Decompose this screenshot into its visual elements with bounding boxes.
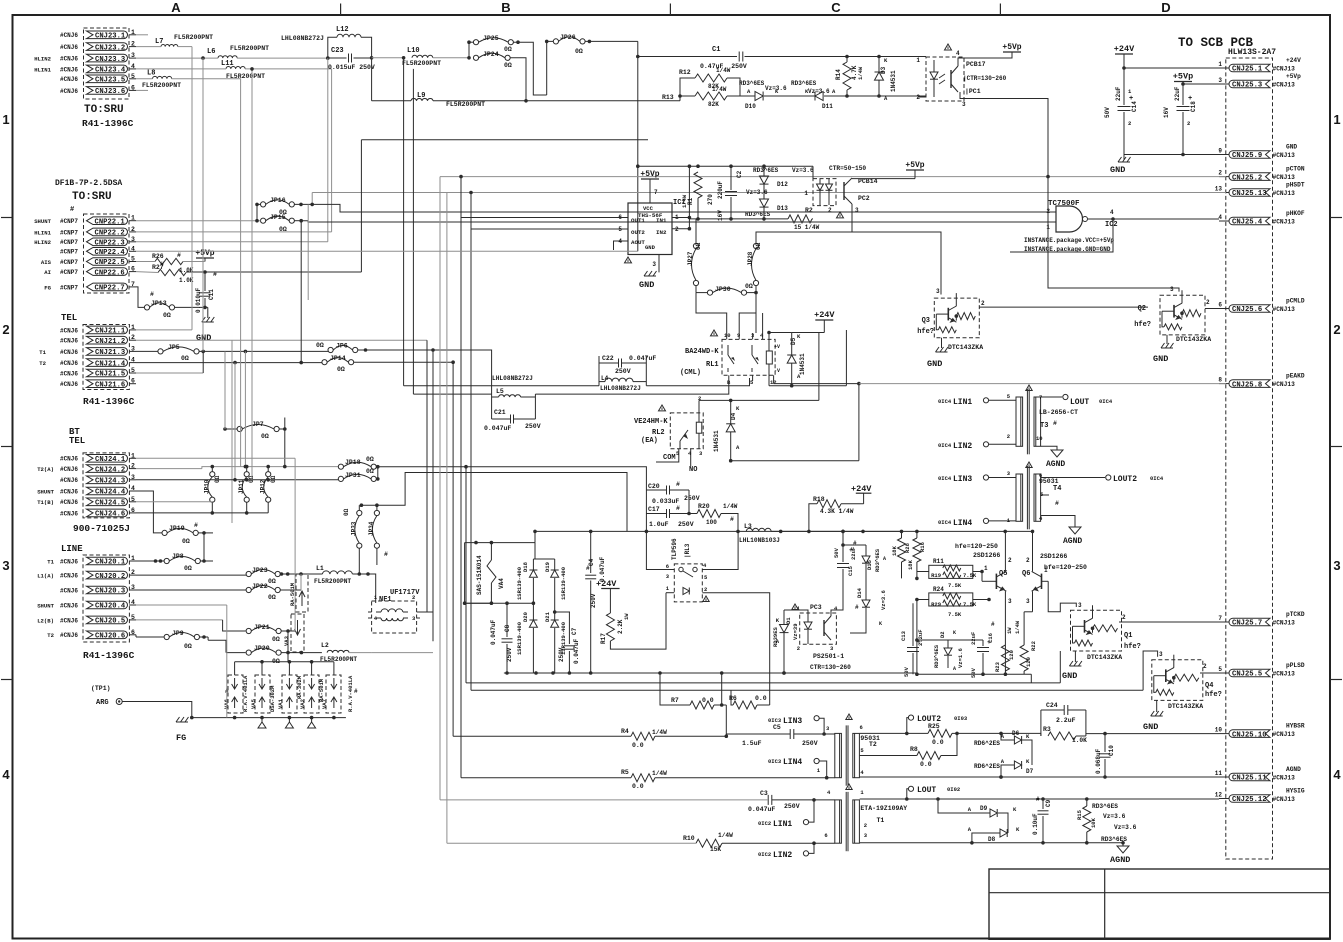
svg-text:3: 3 [962,101,966,108]
connector pin CNJ25.5 (pPLSD) [1229,669,1270,677]
PC1 arrows [939,74,945,78]
connector pin CNJ25.13 (pHSDT) [1229,189,1270,197]
svg-text:0Ω: 0Ω [268,594,276,601]
svg-text:L1: L1 [316,565,324,572]
jumper JP24 [473,55,478,60]
svg-text:CNJ20.5: CNJ20.5 [95,618,125,626]
svg-text:Vz=3.6: Vz=3.6 [808,88,830,95]
wire CNJ23.6 stub [136,89,148,91]
diode D21 1SR139-400 [551,620,559,627]
svg-text:#: # [384,551,388,558]
wire TLP pin4 [702,531,738,569]
wire JP13 right + gnd [175,306,208,308]
connector pin CNJ23.6 [87,87,128,95]
wire FG [192,717,226,719]
svg-text:+24V: +24V [1114,44,1135,54]
svg-text:#: # [991,621,995,628]
PC2 LEDs [817,184,824,190]
diode D7 RD6-2ES [1014,761,1021,769]
svg-text:LHL08NB272J: LHL08NB272J [600,385,641,392]
svg-text:D19: D19 [544,562,551,572]
svg-text:A: A [883,556,886,562]
wire VA4 bottom rail [465,602,534,604]
wire PC3 pin4 [831,570,843,616]
svg-text:SHUNT: SHUNT [34,218,51,225]
svg-text:6: 6 [860,724,863,731]
net stub JP21 wire [136,619,223,621]
svg-text:#: # [213,271,217,278]
wire JP19 right [198,532,213,534]
svg-text:0.0: 0.0 [632,783,644,790]
svg-text:50V: 50V [833,547,840,558]
wire bottom rail to R2 [689,218,788,220]
svg-text:JP21: JP21 [254,624,270,631]
wire L6 out to C23 block [237,57,328,59]
svg-text:RA-302M: RA-302M [296,675,303,699]
svg-text:2: 2 [1008,557,1012,564]
svg-text:95031: 95031 [860,735,880,742]
wire HLIN2 long CNP22.3 [136,241,328,243]
wire +24V to CNJ25.1 [1124,67,1219,69]
svg-text:250V: 250V [506,647,513,662]
svg-text:0.0: 0.0 [702,697,714,704]
wire x859 vertical [858,384,860,461]
diode D3 1N4531 [875,72,884,80]
svg-text:0.033uF: 0.033uF [652,498,679,505]
wire GND rail to CNJ25.9 [1124,154,1219,156]
svg-text:CNJ21.6: CNJ21.6 [95,381,125,389]
inductor L3 LHL10NB103J [746,528,771,531]
wire TLP pin6 [646,531,674,569]
svg-text:6: 6 [666,563,669,570]
svg-text:0Ω: 0Ω [316,342,324,349]
warning triangle IC1 [625,257,632,263]
wire IC2 out down [1010,219,1113,252]
wire PC2 emitter to Q3 [852,204,941,295]
wire C23 right down to L9 [371,58,373,101]
svg-text:#CNP7: #CNP7 [60,249,78,256]
svg-text:0Ω: 0Ω [181,355,189,362]
PC2 transistor [843,182,845,200]
svg-text:JP11: JP11 [238,479,245,494]
svg-text:CNJ24.6: CNJ24.6 [95,511,125,519]
resistor R19 7.5K [943,572,961,578]
svg-text:2.2K: 2.2K [617,619,624,634]
wire Q5 collector [1004,531,1006,571]
svg-text:CNJ23.5: CNJ23.5 [95,77,125,85]
wire Q3 out [979,306,1148,308]
svg-text:RD3^6ES: RD3^6ES [933,644,940,668]
wire T1 sec top (HYSIG) [860,798,907,800]
connector CNJ23 group (TO:SRU) [84,28,130,99]
svg-text:CNJ25.13: CNJ25.13 [1232,190,1267,198]
title block [989,869,1330,939]
resistor R4 0.0 1/4W [631,732,655,740]
svg-text:JP22: JP22 [252,583,268,590]
wire D3 [878,57,880,73]
svg-text:22uF: 22uF [1115,86,1122,101]
svg-text:C23: C23 [331,47,344,55]
svg-text:D3: D3 [880,66,887,74]
svg-text:1/4W: 1/4W [681,194,688,208]
svg-text:CNJ25.5: CNJ25.5 [1232,671,1262,679]
wire JP21 right [281,630,295,632]
svg-text:CNJ21.5: CNJ21.5 [95,371,125,379]
svg-text:Vz=1.6: Vz=1.6 [957,648,964,668]
svg-text:R28: R28 [904,542,911,553]
svg-text:L10: L10 [407,47,420,55]
svg-text:#CNJ6: #CNJ6 [60,466,78,473]
wire x689 vertical [688,166,690,229]
svg-text:0Ω: 0Ω [279,226,287,233]
wire RL2 COM down [656,449,679,462]
svg-text:R6: R6 [729,695,737,702]
svg-text:13: 13 [1215,186,1223,193]
resistor R22 120 1/4W [1020,645,1028,671]
svg-text:L4: L4 [601,375,609,382]
wire bus y140 [361,139,648,141]
wire PC3/D1 top [784,610,808,613]
resistor R27 1.0K [158,269,186,275]
svg-text:hfe?: hfe? [1124,643,1141,651]
jumper JP25 [473,40,478,45]
wire T2 sec bottom to AGND rail [860,776,1219,778]
svg-text:L7: L7 [155,38,163,46]
svg-text:PS2501-1: PS2501-1 [813,653,844,660]
wire L11 out right [251,69,253,480]
svg-text:CNJ25.7: CNJ25.7 [1232,620,1262,628]
svg-text:15 1/4W: 15 1/4W [794,224,820,231]
svg-text:L1(A): L1(A) [37,573,54,580]
svg-text:CNJ20.2: CNJ20.2 [95,573,125,581]
wire CNJ21.2 long [136,339,427,341]
resistor R23 120 1W [1001,645,1009,671]
svg-text:0.047uF: 0.047uF [573,638,580,664]
svg-text:2: 2 [1206,299,1210,306]
svg-text:HLIN2: HLIN2 [34,239,51,246]
wire R8 right [941,733,957,755]
svg-text:D8: D8 [988,836,996,843]
svg-text:JP16: JP16 [270,197,286,204]
relay TLP596 RL3 dashed box [674,564,702,602]
svg-text:SHUNT: SHUNT [37,602,54,609]
wire IC2 out [1088,218,1219,220]
wire JP19 left [136,491,162,533]
wire CNJ24.5 row [136,501,213,503]
svg-text:0Ω: 0Ω [270,475,277,483]
svg-text:0IC2: 0IC2 [758,851,771,858]
jumper JP22 [246,587,251,592]
connector pin CNJ20.2 [87,571,128,579]
svg-text:R.A.V-401LA: R.A.V-401LA [242,675,249,712]
svg-text:JP9: JP9 [172,630,184,637]
svg-text:TO:SRU: TO:SRU [84,104,124,116]
svg-text:DSA-302M: DSA-302M [269,685,276,712]
svg-text:CNJ21.1: CNJ21.1 [95,328,126,336]
svg-text:L2: L2 [321,642,329,649]
svg-text:C9: C9 [1045,799,1052,807]
svg-text:JP19: JP19 [169,525,185,532]
capacitor C7 0.047uF 250V [568,612,570,644]
svg-text:0Ω: 0Ω [184,643,192,650]
wire CNJ21.4 to JP14 [136,362,325,364]
svg-text:#CNJ6: #CNJ6 [60,370,78,377]
svg-text:#CNJ6: #CNJ6 [60,66,78,73]
svg-text:7.5K: 7.5K [948,611,962,618]
jumper JP30 [707,290,712,295]
svg-text:HLIN1: HLIN1 [34,229,51,236]
svg-text:2: 2 [1333,322,1340,337]
diode D11 RD3-6ES [815,92,823,101]
wire LIN3 stub [819,718,824,734]
svg-text:AGND: AGND [1110,855,1130,865]
wire bus x246 down [245,574,247,575]
svg-text:LHL08NB272J: LHL08NB272J [492,375,533,382]
svg-text:2: 2 [1128,120,1131,127]
svg-text:#CNJ6: #CNJ6 [60,456,78,463]
svg-text:K: K [953,630,956,636]
svg-text:T3: T3 [1040,422,1048,430]
svg-text:RD3^6ES: RD3^6ES [739,80,765,87]
connector pin CNP22.6 [87,268,128,276]
svg-text:VA5: VA5 [250,698,257,709]
svg-text:JP18: JP18 [345,459,361,466]
svg-text:CNJ21.4: CNJ21.4 [95,360,126,368]
resistor R1 270 [694,172,702,198]
svg-text:CNJ23.2: CNJ23.2 [95,44,125,52]
wire R24 left [917,599,929,601]
wire Q6 base route [1048,581,1076,612]
wire Q5 emitter [1004,591,1006,674]
wire D11 right [824,95,926,97]
svg-text:+: + [1129,95,1133,103]
wire x413 vertical [412,69,414,394]
svg-text:FL5R200PNT: FL5R200PNT [446,101,485,108]
wire PC1 pin3 down [960,92,1048,177]
svg-text:VA7: VA7 [321,699,328,709]
wire JP24 right [510,58,526,101]
wire T4 pin5 stub [1041,494,1049,496]
svg-text:Vz=3.6: Vz=3.6 [880,590,887,610]
wire Q6 base [1042,580,1049,582]
jumper JP9 [164,634,169,639]
wire C23 plates [328,57,347,59]
svg-text:0Ω: 0Ω [272,636,280,643]
connector pin CNJ21.2 [87,336,128,344]
svg-text:50V: 50V [1104,107,1111,118]
connector pin CNJ24.2 [87,465,128,473]
svg-text:HLIN1: HLIN1 [34,66,51,73]
svg-text:250V: 250V [684,495,700,502]
svg-text:#CNP7: #CNP7 [60,218,78,225]
wire RL1 pins top [726,333,728,339]
wire rail up to +24V side [845,330,847,386]
svg-text:DTC143ZKA: DTC143ZKA [1168,703,1203,710]
svg-text:#: # [177,252,181,259]
svg-text:0.10uF: 0.10uF [1032,813,1039,835]
svg-text:ETA-19Z109AY: ETA-19Z109AY [860,805,907,812]
wire R12 left [680,78,695,96]
svg-text:IN1: IN1 [656,217,667,224]
svg-text:3: 3 [652,261,656,268]
svg-text:CNJ23.4: CNJ23.4 [95,67,126,75]
wire Q4 out to CNJ25.5 [1200,672,1219,674]
svg-text:pCMLD: pCMLD [1286,298,1305,305]
svg-text:0.047uF: 0.047uF [629,355,656,362]
inductor L6 [218,56,237,58]
wire CNJ21.1 stub [136,329,192,331]
svg-text:#CNJ6: #CNJ6 [60,573,78,580]
wire CNP22.6 to R27 [136,271,158,274]
svg-text:C3: C3 [760,790,768,797]
svg-text:CNJ25.6: CNJ25.6 [1232,306,1262,314]
wire JP8 right [200,560,213,562]
arrester VA6 R.A.V-401LA [228,675,243,713]
wire T3 sec to LOUT [1041,396,1062,398]
svg-text:+5Vp: +5Vp [1002,43,1021,52]
svg-text:#: # [1053,420,1057,427]
svg-text:pEAKD: pEAKD [1286,373,1305,380]
svg-text:#CNJ6: #CNJ6 [60,360,78,367]
wire T4 sec to LOUT2 [1041,477,1105,479]
svg-text:2: 2 [1122,614,1126,621]
svg-text:GND: GND [645,244,656,251]
wire R24 right [973,599,989,601]
wire left loop [464,543,466,604]
svg-text:R22: R22 [1030,641,1037,651]
resistor R10 15K [696,839,722,847]
svg-text:#CNJ6: #CNJ6 [60,488,78,495]
svg-text:RD6^2ES: RD6^2ES [974,740,1000,747]
wire R11 left [917,571,929,573]
wire D5 [791,333,793,356]
inductor L8 [153,76,172,78]
svg-text:15K: 15K [710,846,721,853]
wire T3 sec bottom [1041,446,1057,450]
svg-text:R19: R19 [931,572,941,579]
arrester RA-501M label JP23 area [296,574,308,612]
svg-text:1N4531: 1N4531 [890,70,897,92]
wire C3 left [440,799,768,801]
wire C3 right [772,799,835,801]
svg-text:|RL3: |RL3 [684,543,691,558]
wire L9 right [433,100,680,102]
svg-text:0IC3: 0IC3 [768,717,782,724]
frame row tick right 2 [1330,446,1342,448]
svg-text:(TP1): (TP1) [91,685,111,692]
svg-text:D9: D9 [980,805,988,812]
svg-text:Q5: Q5 [999,570,1007,578]
capacitor C15 22uF 50V [842,545,844,562]
svg-text:(CML): (CML) [680,369,701,377]
svg-text:HLW13S-2A7: HLW13S-2A7 [1228,48,1276,57]
svg-text:120: 120 [1008,650,1015,660]
svg-text:T1(B): T1(B) [37,499,54,506]
svg-text:Q3: Q3 [922,317,930,325]
diode D15 RD3-6ES [862,556,870,563]
svg-text:1SR139-400: 1SR139-400 [516,622,523,655]
svg-text:LIN3: LIN3 [953,475,972,484]
diode D4 1N4531 [726,424,735,432]
connector pin CNJ23.3 [87,54,128,62]
svg-text:Vz=3.6: Vz=3.6 [746,189,768,196]
jumper JP19 [162,530,167,535]
svg-text:GND: GND [927,359,942,369]
svg-text:3: 3 [1008,598,1012,605]
RL1 contacts [727,345,729,355]
power +24V rail [1115,53,1133,55]
title block divider vertical [1104,869,1106,939]
svg-text:2: 2 [864,822,867,829]
svg-text:1SR139-400: 1SR139-400 [516,567,523,600]
wire CNJ24.6 row [136,512,268,514]
svg-text:AIS: AIS [41,259,52,266]
frame row tick left 2 [1,446,13,448]
svg-text:C2: C2 [736,170,743,178]
svg-text:R4: R4 [621,728,629,735]
connector pin CNJ25.3 (+5Vp) [1229,80,1270,88]
wire IC1 pin4 [614,241,629,250]
wire L10 to JP24 [433,57,469,59]
svg-text:FL5R200PNT: FL5R200PNT [142,82,181,89]
svg-text:R10: R10 [683,835,695,842]
jumper JP8 [164,558,169,563]
svg-text:+24V: +24V [814,310,835,320]
wire D10-D11 [764,95,815,97]
svg-text:L9: L9 [417,92,425,100]
TLP596 contacts [679,567,683,571]
diode D19 1SR139-400 [551,570,559,577]
wire L5 block right to RL1 pinB [535,381,728,394]
diode D13 RD3-6ES [760,199,769,207]
svg-text:ARG: ARG [96,699,109,707]
svg-text:CNP22.6: CNP22.6 [95,269,125,277]
svg-text:0Ω: 0Ω [366,456,374,463]
resistor R8 0.0 [917,752,941,760]
svg-text:0Ω: 0Ω [504,62,512,69]
svg-text:CNP22.7: CNP22.7 [95,285,125,293]
svg-text:D14: D14 [856,587,863,598]
svg-text:18K: 18K [891,545,898,556]
wire TLP pin2 [702,593,769,705]
PC3 LED [804,622,812,629]
svg-text:#CNJ6: #CNJ6 [60,88,78,95]
svg-text:R7: R7 [671,697,679,704]
arrester VA3 dashed [291,614,304,652]
diode D6 RD6-2ES [1014,736,1021,744]
wire L1 right [352,574,375,603]
svg-text:+: + [1188,95,1192,103]
wire D12-D13 [763,166,765,176]
svg-text:#CNJ6: #CNJ6 [60,76,78,83]
svg-text:L11: L11 [221,60,234,68]
wire L2 right [349,652,371,654]
svg-text:JP30: JP30 [715,286,731,293]
svg-text:#: # [1055,500,1059,507]
svg-text:3: 3 [1170,286,1174,293]
jumper JP27 [693,243,698,248]
svg-text:LOUT: LOUT [1070,398,1089,407]
svg-text:JP25: JP25 [483,35,499,42]
svg-text:CNJ25.3: CNJ25.3 [1232,82,1262,90]
wire JP22 right [280,589,301,591]
svg-text:AGND: AGND [1063,537,1082,546]
svg-text:1/4W: 1/4W [718,832,733,839]
wire x819 vertical [818,333,820,401]
svg-text:#CNJ6: #CNJ6 [60,632,78,639]
wire L4 left [599,381,605,383]
svg-text:1: 1 [2,112,9,127]
